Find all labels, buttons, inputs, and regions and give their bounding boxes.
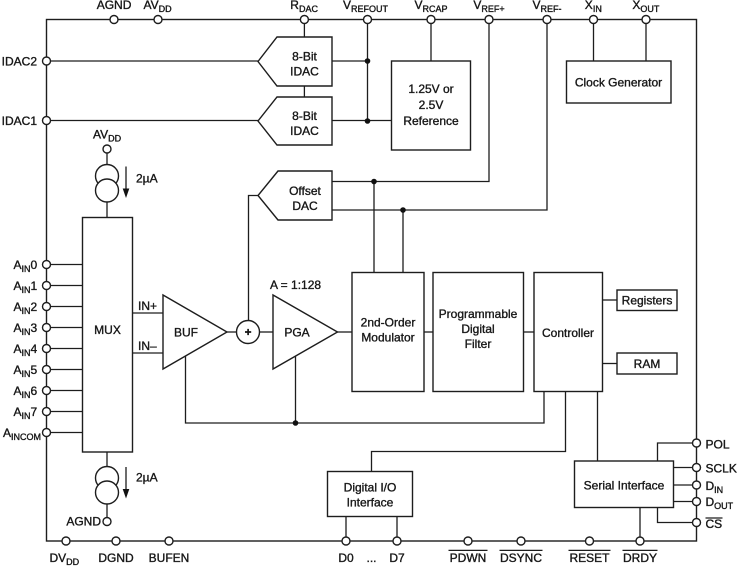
- wire MUX IN- to BUF: [133, 352, 164, 354]
- svg-text:DRDY: DRDY: [623, 551, 657, 565]
- summing node: [237, 321, 260, 344]
- pin XOUT: [642, 16, 650, 24]
- junction dot VREF- branch: [400, 207, 406, 213]
- wire AIN7 stub: [47, 411, 83, 413]
- svg-text:8-Bit: 8-Bit: [292, 49, 317, 63]
- wire IDAC2 output: [332, 60, 368, 62]
- pin AIN3: [43, 324, 51, 332]
- wire D0: [345, 517, 347, 542]
- wire AIN5 stub: [47, 369, 83, 371]
- wire POL: [658, 443, 697, 461]
- pin VRCAP: [427, 16, 435, 24]
- wire filter to controller: [524, 331, 535, 333]
- svg-text:PGA: PGA: [284, 326, 309, 340]
- junction dot IDAC1/VREFOUT: [365, 118, 371, 124]
- bottom current source: [96, 467, 119, 490]
- svg-text:BUF: BUF: [174, 326, 198, 340]
- wire AIN0 stub: [47, 264, 83, 266]
- pin AIN4: [43, 345, 51, 353]
- reference box: [392, 61, 471, 150]
- svg-text:A = 1:128: A = 1:128: [270, 278, 321, 292]
- pin DOUT: [693, 498, 701, 506]
- svg-text:1.25V or: 1.25V or: [408, 82, 453, 96]
- wire controller to registers: [603, 299, 618, 301]
- wire DOUT: [674, 501, 697, 503]
- wire XIN to clock generator: [593, 20, 595, 62]
- wire AIN2 stub: [47, 306, 83, 308]
- svg-text:8-Bit: 8-Bit: [292, 109, 317, 123]
- wire AIN3 stub: [47, 327, 83, 329]
- svg-text:IN+: IN+: [138, 299, 157, 313]
- svg-text:CS: CS: [706, 517, 723, 531]
- pin AIN6: [43, 387, 51, 395]
- wire BUF to summing node: [227, 331, 237, 333]
- wire MUX IN+ to BUF: [133, 312, 164, 314]
- pin DRDY: [636, 537, 644, 545]
- pin VREF+: [485, 16, 493, 24]
- pin XIN: [590, 16, 598, 24]
- serial interface box: [575, 461, 674, 508]
- pin VREFOUT: [364, 16, 372, 24]
- svg-text:...: ...: [366, 551, 376, 565]
- wire bottom current source to AGND: [106, 503, 108, 518]
- svg-text:BUFEN: BUFEN: [149, 551, 190, 565]
- svg-text:PDWN: PDWN: [450, 551, 487, 565]
- pin IDAC2: [43, 57, 51, 65]
- wire AINCOM stub: [47, 432, 83, 434]
- svg-text:Filter: Filter: [465, 337, 492, 351]
- bottom current source arrow: [125, 467, 127, 490]
- pin DGND: [112, 537, 120, 545]
- wire VREF+ branch to modulator: [373, 182, 375, 273]
- svg-text:AGND: AGND: [97, 0, 132, 12]
- wire D7: [396, 517, 398, 542]
- wire AVDD to top current source: [106, 153, 108, 165]
- wire summing node to PGA: [260, 331, 274, 333]
- svg-text:POL: POL: [706, 437, 730, 451]
- svg-text:Controller: Controller: [542, 326, 594, 340]
- wire AIN6 stub: [47, 390, 83, 392]
- pin DSYNC: [517, 537, 525, 545]
- svg-text:IDAC2: IDAC2: [2, 54, 38, 68]
- wire controller to digital IO: [372, 392, 566, 472]
- wire between IDAC pentagons: [303, 86, 305, 97]
- svg-text:2µA: 2µA: [136, 172, 158, 186]
- svg-text:DAC: DAC: [292, 199, 318, 213]
- svg-text:DGND: DGND: [98, 551, 134, 565]
- pin DIN: [693, 481, 701, 489]
- svg-text:Digital I/O: Digital I/O: [344, 481, 397, 495]
- wire IDAC2 pin to DAC: [47, 60, 259, 62]
- 8-bit IDAC 1: [258, 97, 332, 145]
- wire modulator to filter: [424, 331, 433, 333]
- svg-text:RESET: RESET: [569, 551, 610, 565]
- pin SCLK: [693, 464, 701, 472]
- pin D7: [393, 537, 401, 545]
- RAM box: [617, 353, 677, 374]
- pin VREF-: [543, 16, 551, 24]
- wire XOUT to clock generator: [645, 20, 647, 62]
- pin AIN5: [43, 366, 51, 374]
- wire VREF+ to offset DAC: [332, 20, 489, 182]
- pin D0: [342, 537, 350, 545]
- wire VRCAP to reference box: [430, 20, 432, 62]
- junction dot IDAC2/VREFOUT: [365, 58, 371, 64]
- pin PDWN: [464, 537, 472, 545]
- controller box: [534, 273, 603, 392]
- svg-text:D0: D0: [338, 551, 354, 565]
- pin DVDD: [62, 537, 70, 545]
- top current source arrow: [125, 167, 127, 190]
- pin BUFEN: [165, 537, 173, 545]
- wire VREFOUT vertical: [367, 20, 369, 122]
- pin IDAC1: [43, 117, 51, 125]
- wire DRDY: [639, 508, 641, 542]
- svg-text:Registers: Registers: [622, 294, 673, 308]
- svg-text:SCLK: SCLK: [706, 461, 737, 475]
- wire IDAC1 output to reference: [332, 120, 392, 122]
- pin AIN1: [43, 282, 51, 290]
- pin AINCOM: [43, 429, 51, 437]
- svg-text:Digital: Digital: [461, 322, 494, 336]
- junction dot PGA feedback: [293, 420, 299, 426]
- wire VREF- branch to modulator: [402, 210, 404, 273]
- junction dot VREF+ branch: [371, 179, 377, 185]
- AGND internal pin: [103, 518, 111, 526]
- svg-text:Interface: Interface: [347, 495, 394, 509]
- MUX box: [83, 218, 133, 453]
- wire top current source to MUX: [106, 201, 108, 218]
- registers box: [617, 290, 677, 311]
- wire controller to serial interface: [597, 392, 599, 462]
- svg-text:2nd-Order: 2nd-Order: [361, 316, 416, 330]
- pin AIN2: [43, 303, 51, 311]
- clock generator box: [567, 61, 672, 103]
- digital IO interface box: [328, 472, 413, 517]
- AVDD internal pin: [103, 145, 111, 153]
- svg-text:IDAC1: IDAC1: [2, 114, 38, 128]
- pin RESET: [586, 537, 594, 545]
- wire DIN: [674, 484, 697, 486]
- wire BUF feedback from controller: [186, 356, 545, 423]
- wire VREF- to offset DAC: [332, 20, 547, 211]
- svg-text:Clock Generator: Clock Generator: [575, 76, 662, 90]
- 8-bit IDAC 2: [258, 37, 332, 86]
- svg-text:MUX: MUX: [94, 323, 121, 337]
- svg-text:Modulator: Modulator: [361, 331, 414, 345]
- wire controller to RAM: [603, 363, 618, 365]
- svg-text:RAM: RAM: [634, 357, 661, 371]
- svg-text:D7: D7: [389, 551, 405, 565]
- programmable digital filter box: [433, 273, 524, 392]
- svg-text:IDAC: IDAC: [290, 124, 319, 138]
- svg-text:AGND: AGND: [66, 515, 101, 529]
- pin POL: [693, 439, 701, 447]
- buffer BUF: [163, 295, 227, 369]
- wire offset DAC to summing node: [249, 196, 259, 321]
- wire SCLK: [674, 467, 697, 469]
- svg-text:DSYNC: DSYNC: [500, 551, 542, 565]
- pin AVDD: [154, 16, 162, 24]
- wire AIN1 stub: [47, 285, 83, 287]
- pin CS: [693, 519, 701, 527]
- pin AIN0: [43, 261, 51, 269]
- wire PGA feedback branch: [295, 357, 297, 424]
- svg-text:Serial Interface: Serial Interface: [584, 478, 665, 492]
- svg-text:Offset: Offset: [289, 184, 321, 198]
- wire AIN4 stub: [47, 348, 83, 350]
- wire IDAC1 pin to DAC: [47, 120, 259, 122]
- svg-text:IN–: IN–: [138, 339, 157, 353]
- wire MUX to bottom current source: [106, 452, 108, 467]
- svg-text:Reference: Reference: [403, 114, 459, 128]
- pin RDAC: [300, 16, 308, 24]
- offset DAC: [258, 171, 332, 220]
- svg-text:2.5V: 2.5V: [419, 98, 444, 112]
- 2nd-order modulator box: [352, 273, 424, 392]
- svg-text:2µA: 2µA: [136, 471, 158, 485]
- wire PGA to modulator: [338, 331, 353, 333]
- pin AGND: [110, 16, 118, 24]
- top current source: [96, 165, 119, 188]
- wire RDAC to IDAC2 top: [303, 20, 305, 38]
- PGA: [273, 295, 338, 369]
- wire CS: [658, 508, 697, 523]
- svg-text:IDAC: IDAC: [290, 64, 319, 78]
- svg-text:Programmable: Programmable: [439, 307, 518, 321]
- pin AIN7: [43, 408, 51, 416]
